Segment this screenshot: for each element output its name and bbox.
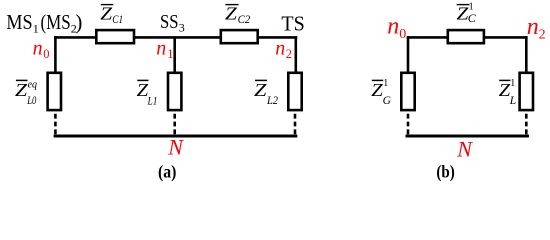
svg-text:Z: Z (254, 80, 268, 100)
wire: circuit (a) left vertical drop at node n0 (54, 36, 57, 73)
svg-text:L2: L2 (266, 95, 278, 107)
svg-text:eq: eq (28, 79, 38, 91)
value label Z-bar C 1 (b) (457, 2, 477, 26)
wire: circuit (b) bottom neutral bus N (406, 135, 529, 138)
svg-text:L: L (509, 95, 516, 107)
svg-text:0: 0 (399, 27, 406, 42)
value label Z-bar L1 (137, 80, 158, 108)
svg-text:Z: Z (225, 4, 238, 24)
svg-text:n: n (275, 38, 285, 60)
svg-text:L1: L1 (147, 95, 158, 107)
wire: circuit (a) vertical drop at node n1 (173, 37, 176, 73)
svg-text:N: N (456, 137, 473, 162)
wire: circuit (b) right vertical drop at n2 (525, 36, 528, 73)
impedance box ZL2 (shunt) (288, 73, 301, 110)
impedance box ZC1(b) (series) (448, 30, 484, 43)
wire: circuit (a) vertical drop at node n2 / TS (294, 37, 297, 73)
impedance box ZG1 (shunt) (401, 73, 414, 110)
node n2 (circuit b, red) (527, 14, 546, 43)
node n2 (circuit a, red) (275, 38, 292, 62)
svg-text:N: N (167, 134, 184, 159)
wire: dashed connection from ZL1(b) to node N (525, 114, 528, 136)
wire: circuit (a) top horizontal bus from node n0 to TS column (54, 36, 297, 39)
wire: circuit (b) top horizontal bus n0 to n2 (407, 36, 528, 39)
svg-text:(MS: (MS (41, 10, 71, 34)
wire: circuit (a) bottom neutral bus N (54, 135, 298, 138)
node n0 (circuit b, red) (387, 14, 406, 42)
svg-text:(b): (b) (436, 162, 455, 182)
svg-text:3: 3 (179, 20, 185, 34)
value label Z-bar L2 (254, 80, 278, 107)
wire: dashed connection from ZL2 to node N (294, 114, 297, 136)
svg-text:n: n (33, 38, 43, 60)
impedance box ZC2 (series) (221, 30, 258, 43)
wire: dashed connection from ZL0eq to node N (54, 114, 57, 136)
svg-text:1: 1 (33, 22, 39, 36)
label SS3 (160, 11, 185, 35)
svg-text:SS: SS (160, 11, 179, 33)
svg-text:2: 2 (286, 47, 292, 61)
value label Z-bar C2 (225, 4, 250, 26)
value label Z-bar L 1 (b) (499, 78, 516, 107)
value label Z-bar G 1 (371, 78, 391, 107)
svg-text:2: 2 (539, 27, 546, 42)
node n0 (circuit a, red) (33, 38, 50, 62)
svg-text:C: C (468, 11, 477, 25)
impedance box ZL1(b) (shunt) (520, 73, 533, 110)
value label Z-bar C1 (100, 4, 123, 26)
impedance box ZC1 (series) (96, 30, 134, 43)
svg-text:1: 1 (167, 47, 173, 61)
wire: dashed connection from ZL1 to node N (173, 114, 176, 136)
wire: dashed connection from ZG1 to node N (407, 114, 410, 136)
svg-text:G: G (383, 95, 392, 107)
svg-text:n: n (527, 14, 539, 40)
svg-text:C1: C1 (112, 12, 123, 26)
svg-text:1: 1 (510, 78, 515, 89)
label MS1 (MS2) (6, 10, 82, 36)
svg-text:MS: MS (6, 10, 32, 34)
svg-text:n: n (156, 38, 166, 60)
svg-text:C2: C2 (238, 12, 251, 26)
svg-text:n: n (387, 14, 399, 40)
wire: circuit (b) left vertical drop at n0 (407, 36, 410, 73)
svg-text:TS: TS (281, 11, 304, 35)
svg-text:L0: L0 (26, 95, 36, 107)
impedance box ZL0eq (shunt) (48, 73, 61, 110)
svg-text:): ) (75, 10, 82, 34)
impedance box ZL1 (shunt) (168, 73, 181, 110)
svg-text:(a): (a) (158, 162, 177, 182)
svg-text:0: 0 (43, 47, 49, 61)
svg-text:Z: Z (15, 80, 28, 100)
value label Z-bar L0 eq (15, 79, 37, 108)
node n1 (circuit a, red) (156, 38, 173, 62)
svg-text:1: 1 (383, 78, 388, 89)
